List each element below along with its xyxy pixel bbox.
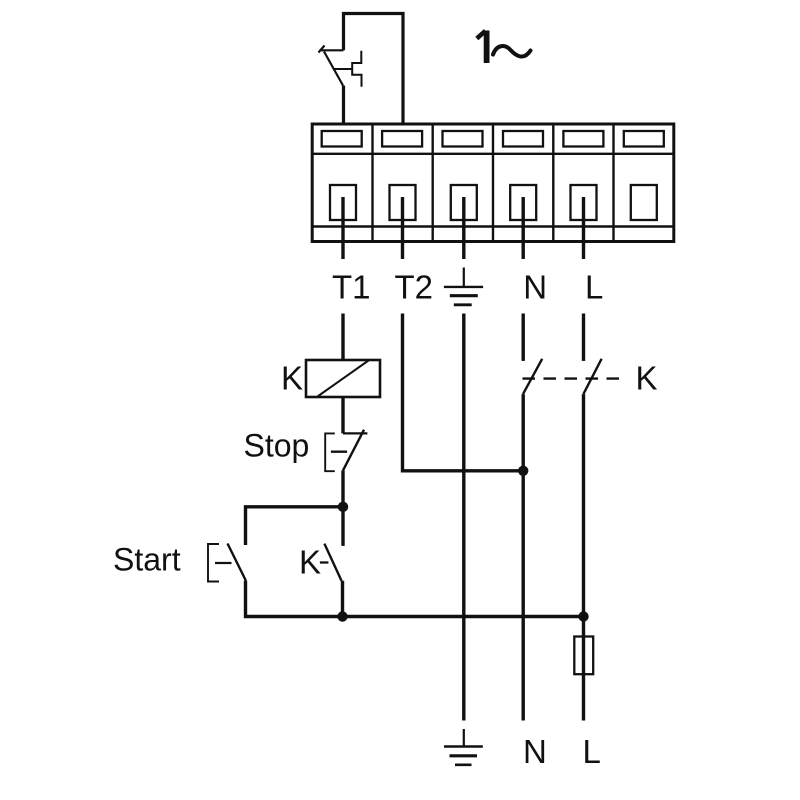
mechanical link dash of contact K [320,561,329,563]
wire L from terminal 5 down to label gap [582,197,585,259]
terminal block cell dividers [373,124,614,242]
thermal element symbol [335,51,362,87]
main contact K in N line [523,359,542,394]
wire N from main contact down to bottom [522,394,525,720]
main contact K in L line [583,359,601,394]
svg-text:L: L [585,269,603,306]
label 1~ single phase [477,31,531,64]
node C junction dot T2 to N [518,466,528,476]
terminal wire entry rectangles (bottom row) [330,185,657,220]
terminal block horizontal separators [312,154,674,227]
svg-text:K: K [299,544,321,581]
svg-text:K: K [636,360,658,397]
terminal screw head rectangles (top row) [322,131,664,147]
svg-text:Start: Start [113,542,181,578]
wire T1 from label gap to relay coil [341,314,344,361]
wire from Stop to junction node A [341,470,344,506]
wire K auxiliary branch lower [341,581,344,617]
wire N from terminal 4 down to label gap [522,197,525,259]
NO auxiliary contact K [324,544,341,581]
svg-text:Stop: Stop [244,428,310,464]
mechanical link dashed line of contactor K [523,377,622,379]
svg-text:L: L [583,733,601,770]
node B junction dot on bottom rail [337,611,347,621]
node A junction dot [338,502,348,512]
relay coil K [306,360,380,397]
wire N from label gap to main contact [522,314,525,361]
Stop pushbutton actuator bracket [325,433,347,471]
wire T2 from terminal 2 down to label gap [401,197,404,259]
wire from coil K to Stop contact [341,397,344,433]
fuse F1 in L line [574,637,593,675]
NC pushbutton Stop contact [343,430,367,471]
svg-text:N: N [523,733,547,770]
wire T2 from label gap down and across to N [403,314,524,471]
wire bottom rail to L line [343,615,584,618]
wire top loop from thermal switch to terminals 1 and 2 [344,14,404,126]
thermal overload switch contact [319,46,344,86]
wire L from label gap to main contact [582,314,585,361]
node D junction dot bottom rail to L [578,611,588,621]
terminal block outer body [312,124,674,242]
svg-text:K: K [281,360,303,397]
earth ground symbol lower [444,729,483,765]
NO pushbutton Start contact [228,544,246,581]
wire PE from upper ground symbol down to lower ground [462,314,465,721]
svg-text:T2: T2 [395,269,434,306]
Start pushbutton actuator bracket [208,544,232,582]
svg-text:N: N [523,269,547,306]
wire from Start contact down to bottom rail [246,581,343,617]
wire L from main contact down to bottom [582,394,585,720]
wire T1 from terminal 1 down to label gap [341,197,344,259]
earth ground symbol upper [444,268,483,305]
wire PE from terminal 3 down to label gap [462,197,465,259]
wire top rail of parallel branch [246,507,344,545]
svg-text:T1: T1 [332,269,371,306]
wire K auxiliary branch upper [341,507,344,546]
